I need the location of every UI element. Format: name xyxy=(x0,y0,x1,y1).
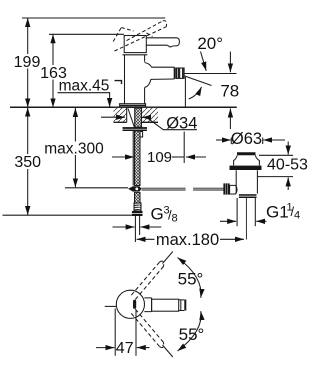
svg-text:55°: 55° xyxy=(179,325,205,344)
svg-text:199: 199 xyxy=(14,54,41,71)
lever housing top view xyxy=(144,298,151,312)
svg-text:max.45: max.45 xyxy=(59,78,110,95)
hose thread end xyxy=(134,203,141,211)
dimension 350 xyxy=(27,108,29,216)
pop-up rod (slanted, in shank) xyxy=(128,109,134,128)
dashed lever down 55 xyxy=(131,309,163,348)
pop-up waste: plug cap xyxy=(237,152,256,155)
svg-text:20°: 20° xyxy=(197,34,223,53)
dashed lever up 55 xyxy=(131,261,163,299)
tee ball joint xyxy=(128,186,142,191)
svg-text:40-53: 40-53 xyxy=(267,157,308,174)
faucet body top view circle xyxy=(116,290,144,318)
rod knob port xyxy=(230,185,238,194)
svg-text:47: 47 xyxy=(116,340,134,357)
deck cross-section hatched xyxy=(114,108,159,122)
dimension 109 xyxy=(112,156,206,158)
supply hose (braided) xyxy=(135,131,141,186)
faucet housing (cartridge) xyxy=(124,36,146,53)
lever shaft top view xyxy=(152,299,179,311)
waste seal ring xyxy=(230,166,262,170)
dimension G3/8 arrows xyxy=(113,226,162,228)
hose below tee xyxy=(135,193,141,204)
wire 55 lower extension xyxy=(163,345,173,357)
wire housing/body joint xyxy=(123,54,148,56)
svg-text:G1: G1 xyxy=(266,202,289,221)
svg-text:4: 4 xyxy=(294,210,300,222)
G3/8 nipple xyxy=(134,216,136,242)
waste upper skirt xyxy=(234,155,260,165)
temperature stop tab xyxy=(115,81,122,84)
dimension 163 xyxy=(52,34,54,107)
lever end cap xyxy=(184,300,186,311)
threaded shank through deck xyxy=(135,108,142,127)
waste coupling ring xyxy=(239,194,257,198)
svg-text:8: 8 xyxy=(172,213,178,225)
wire hose-end extension line (350 reference) xyxy=(3,214,132,216)
wire wall stub xyxy=(105,305,117,307)
spout end / aerator xyxy=(174,67,176,79)
arc 55 upper xyxy=(178,258,202,298)
label G1 1/4 xyxy=(266,202,300,222)
handle lever dashed (raised position) xyxy=(113,21,166,51)
dimension 40-53 xyxy=(287,142,289,191)
wire spout axis extension (horizontal) xyxy=(184,73,237,75)
wire deck surface line xyxy=(10,106,237,108)
svg-text:350: 350 xyxy=(14,154,41,171)
svg-text:Ø63: Ø63 xyxy=(231,130,262,148)
svg-text:G: G xyxy=(151,205,164,224)
svg-text:max.300: max.300 xyxy=(44,141,104,158)
dimension 47 xyxy=(96,309,150,356)
dimension max.180 xyxy=(137,238,244,240)
waste tailpipe xyxy=(236,198,238,226)
dimension 78 xyxy=(229,52,231,130)
faucet body xyxy=(125,55,145,104)
arc 55 lower xyxy=(178,311,202,351)
wire housing-top extension line xyxy=(49,33,124,35)
mounting nut xyxy=(123,127,148,131)
svg-text:109: 109 xyxy=(147,149,172,166)
wire spout 20deg sloped line xyxy=(184,76,212,86)
handle lever (solid) xyxy=(146,38,179,47)
leader 20deg xyxy=(201,52,207,71)
dimension 199 xyxy=(27,18,29,107)
wire 55 upper extension xyxy=(163,252,173,264)
wire 40-53 upper reference xyxy=(259,154,293,156)
lever slot xyxy=(133,300,136,309)
wire max300 reference line xyxy=(65,187,128,189)
dimension diam34 xyxy=(101,117,197,130)
pop-up rod vertical xyxy=(132,131,134,186)
pop-up horizontal rod xyxy=(142,188,224,190)
dimension max.300 xyxy=(74,108,76,187)
spout xyxy=(145,63,175,88)
hose nut xyxy=(132,211,143,216)
wire 40-53 lower reference xyxy=(258,176,294,178)
svg-text:55°: 55° xyxy=(178,270,204,289)
svg-text:Ø34: Ø34 xyxy=(166,114,197,132)
rod knob (knurled) xyxy=(223,183,229,194)
wire water stream vertical xyxy=(184,77,186,107)
arc 20deg angle xyxy=(189,87,202,99)
wire top extension line (lever raised level) xyxy=(22,17,165,19)
dimension G1 1/4 arrows xyxy=(220,220,267,222)
dimension max.45 leader xyxy=(58,93,111,107)
svg-text:78: 78 xyxy=(220,82,239,101)
wire tailpipe center line xyxy=(245,198,247,240)
label G3/8 xyxy=(151,205,178,225)
svg-text:max.180: max.180 xyxy=(156,231,219,249)
hose collar xyxy=(140,132,143,138)
base flange xyxy=(120,104,146,108)
waste body xyxy=(236,170,257,193)
dimension diam63 xyxy=(216,138,285,145)
